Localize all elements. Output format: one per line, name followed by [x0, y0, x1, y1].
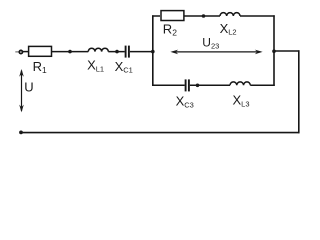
- node dot after R1: [68, 50, 72, 54]
- node dot after R2: [202, 14, 206, 18]
- wire terminal to R1: [23, 51, 28, 53]
- inductor XL2: [220, 13, 240, 16]
- svg-text:R1: R1: [33, 59, 47, 75]
- resistor R2: [161, 11, 184, 21]
- svg-text:XL3: XL3: [233, 93, 250, 109]
- svg-text:XL1: XL1: [87, 57, 104, 73]
- svg-text:XC1: XC1: [115, 59, 133, 75]
- node dot after XC3: [196, 84, 200, 88]
- inductor XL3: [230, 82, 250, 85]
- resistor R1: [29, 46, 52, 56]
- top branch wire to R2: [152, 15, 160, 17]
- wire XL3 to right vertical: [250, 84, 274, 86]
- svg-text:XC3: XC3: [176, 93, 194, 109]
- node 3 junction dot: [272, 49, 276, 53]
- wire XL2 to right vertical: [240, 15, 275, 17]
- capacitor XC3: [186, 79, 189, 91]
- node dot before XC1: [115, 50, 119, 54]
- svg-text:U: U: [24, 79, 33, 94]
- bottom branch wire to XC3: [152, 84, 185, 86]
- svg-text:R2: R2: [163, 22, 177, 38]
- wire R2 to XL2: [184, 15, 220, 17]
- inductor XL1: [88, 48, 108, 51]
- input terminal stub wire: [15, 51, 19, 53]
- tap wire node 3 to outer right: [274, 50, 300, 52]
- wire XC1 to node 2: [130, 51, 153, 53]
- svg-text:XL2: XL2: [220, 21, 237, 37]
- outer right vertical wire: [298, 50, 300, 133]
- node 2 junction dot: [151, 50, 155, 54]
- voltage arrow U (double headed vertical): [19, 69, 24, 112]
- capacitor XC1: [126, 46, 129, 58]
- wire XC3 to XL3: [190, 84, 230, 86]
- bottom return wire: [21, 132, 300, 134]
- left vertical wire of parallel section: [152, 15, 154, 86]
- input terminal circle: [19, 50, 22, 53]
- voltage arrow U23 (double headed horizontal): [170, 50, 262, 55]
- wire R1 to XL1: [52, 51, 88, 53]
- wire XL1 to XC1: [108, 51, 124, 53]
- bottom terminal dot: [19, 131, 23, 135]
- svg-text:U23: U23: [202, 36, 219, 51]
- right vertical wire of parallel section: [273, 15, 275, 86]
